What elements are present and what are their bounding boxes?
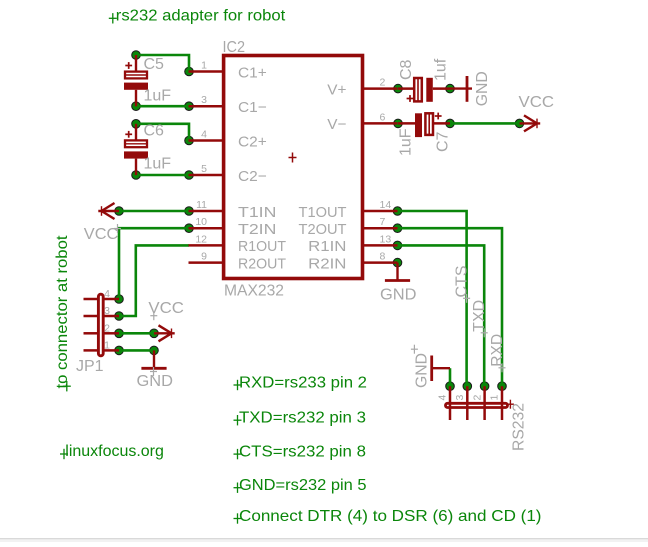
svg-text:CTS: CTS (454, 266, 471, 298)
label JP1 (76, 358, 104, 375)
svg-text:3: 3 (104, 305, 110, 317)
wire C5 top to pin1 (136, 55, 189, 72)
wire VCC to T1IN pin11 (119, 210, 189, 213)
supply VCC arrow at JP1 pin2 (154, 325, 175, 341)
ground symbol at JP1 pin1 (141, 350, 166, 368)
svg-text:1: 1 (201, 60, 207, 72)
net label CTS (454, 266, 471, 303)
svg-text:rs232 adapter for robot: rs232 adapter for robot (116, 8, 286, 25)
svg-text:TXD: TXD (471, 300, 488, 332)
svg-text:C6: C6 (144, 123, 165, 140)
svg-text:12: 12 (195, 233, 207, 245)
svg-text:VCC: VCC (84, 226, 119, 243)
text "GND=rs232 pin 5" (234, 477, 367, 494)
svg-text:RS232: RS232 (510, 403, 527, 451)
svg-text:JP1: JP1 (76, 358, 104, 375)
svg-text:1uF: 1uF (144, 156, 172, 173)
connector RS232 body (446, 400, 514, 409)
value label MAX232 (224, 283, 284, 300)
svg-text:R2IN: R2IN (308, 255, 346, 272)
svg-text:CTS=rs232 pin 8: CTS=rs232 pin 8 (239, 443, 366, 460)
wire pin6 to C7 (398, 122, 450, 125)
svg-text:C1−: C1− (238, 99, 267, 116)
svg-text:R1OUT: R1OUT (238, 238, 286, 255)
value 1uF (C5) (144, 87, 172, 104)
connector JP1 body (98, 294, 103, 356)
label VCC (JP1) (148, 300, 184, 320)
wire T2OUT pin7 to RS232 pin1 (RXD) (398, 228, 503, 386)
IC2 left pin numbers (195, 60, 207, 263)
svg-text:C5: C5 (144, 56, 165, 73)
label GND (RS232, rotated) (411, 345, 431, 388)
svg-text:4: 4 (104, 288, 110, 300)
svg-text:GND: GND (380, 287, 417, 304)
svg-text:T1IN: T1IN (238, 204, 276, 221)
svg-text:TXD=rs232 pin 3: TXD=rs232 pin 3 (239, 410, 366, 427)
value 1uF (C7, rotated) (397, 128, 414, 156)
svg-text:3: 3 (201, 94, 207, 106)
svg-text:V+: V+ (327, 81, 346, 98)
ground symbol at RS232 pin4 (432, 356, 450, 382)
svg-text:10: 10 (195, 216, 207, 228)
ground symbol at R2IN pin8 (385, 263, 410, 281)
IC2 left pin stubs (189, 72, 224, 263)
svg-text:1uf: 1uf (432, 58, 449, 81)
wire C6 bottom to pin5 (136, 174, 189, 177)
svg-text:linuxfocus.org: linuxfocus.org (65, 443, 164, 460)
label C6 (144, 123, 165, 140)
svg-text:1: 1 (104, 339, 110, 351)
IC IC2 (MAX232) body (224, 56, 363, 279)
svg-text:11: 11 (196, 199, 207, 211)
svg-text:2: 2 (104, 322, 110, 334)
net label TXD (471, 300, 488, 338)
supply VCC arrow at T1IN (98, 203, 119, 219)
svg-text:4: 4 (201, 129, 207, 141)
capacitor C6 (124, 124, 148, 175)
wire T1OUT pin14 to RS232 pin3 (CTS) (398, 211, 468, 386)
wire C7 to VCC supply (450, 122, 520, 125)
svg-text:MAX232: MAX232 (224, 283, 284, 300)
label RS232 (rotated) (510, 403, 527, 451)
label C8 (rotated) (398, 59, 415, 80)
label VCC (T1IN) (84, 224, 121, 243)
svg-text:V−: V− (327, 116, 346, 133)
svg-text:3: 3 (454, 395, 466, 401)
wire C6 top to pin4 (136, 124, 189, 141)
svg-text:to connector at robot: to connector at robot (54, 235, 71, 389)
svg-text:C8: C8 (398, 59, 415, 80)
svg-text:7: 7 (380, 216, 386, 228)
capacitor C7 (415, 113, 442, 138)
wire pin2 to C8 (398, 87, 450, 90)
svg-text:2: 2 (380, 77, 386, 89)
svg-text:1: 1 (489, 395, 501, 401)
connector JP1 pin numbers (104, 288, 110, 351)
wire C5 bottom to pin3 (136, 105, 189, 108)
wire R1IN pin13 to RS232 pin2 (TXD) (398, 245, 485, 386)
svg-text:1uF: 1uF (144, 87, 172, 104)
svg-text:2: 2 (471, 395, 483, 401)
svg-text:14: 14 (380, 199, 392, 211)
svg-text:T2IN: T2IN (238, 221, 276, 238)
wire JP1 pin1 to GND (119, 349, 154, 352)
svg-text:13: 13 (380, 233, 392, 245)
svg-text:RXD: RXD (489, 334, 506, 367)
svg-text:IC2: IC2 (223, 39, 246, 56)
label C5 (144, 56, 165, 73)
wire R1OUT pin12 to JP1 pin3 (119, 245, 189, 316)
label IC2 (223, 39, 246, 56)
svg-text:RXD=rs233 pin 2: RXD=rs233 pin 2 (239, 374, 367, 391)
IC2 right pin numbers (380, 77, 392, 263)
label GND (pin8) (380, 287, 417, 304)
wire JP1 pin2 to VCC (119, 332, 154, 335)
svg-text:T1OUT: T1OUT (299, 204, 347, 221)
text linuxfocus.org (60, 443, 164, 460)
svg-text:C7: C7 (435, 131, 452, 152)
capacitor C8 (407, 78, 433, 102)
svg-text:4: 4 (437, 395, 449, 401)
connector RS232 pin numbers (rotated) (437, 395, 501, 401)
text "RXD=rs233 pin 2" (234, 374, 368, 391)
svg-text:GND: GND (137, 373, 174, 390)
svg-text:9: 9 (201, 251, 207, 263)
svg-text:5: 5 (201, 163, 207, 175)
svg-text:GND: GND (414, 353, 431, 388)
net label RXD (489, 334, 506, 373)
title text "rs232 adapter for robot" (109, 8, 286, 25)
svg-text:C2−: C2− (238, 168, 267, 185)
text "to connector at robot" (rotated) (54, 235, 71, 391)
svg-text:C2+: C2+ (238, 133, 267, 150)
wire T2IN pin10 to JP1 pin4 (119, 228, 189, 299)
svg-text:GND=rs232 pin 5: GND=rs232 pin 5 (239, 477, 367, 494)
svg-text:GND: GND (474, 71, 491, 106)
svg-text:R2OUT: R2OUT (238, 255, 286, 272)
label GND (JP1) (137, 367, 174, 390)
svg-text:Connect DTR (4) to DSR (6) and: Connect DTR (4) to DSR (6) and CD (1) (239, 508, 542, 525)
connector JP1 pin stubs (84, 299, 120, 350)
svg-text:8: 8 (380, 251, 386, 263)
label GND (C8, rotated) (474, 71, 491, 106)
text "Connect DTR (4) to DSR (6) and CD (1)" (234, 508, 542, 525)
capacitor C5 (124, 55, 148, 106)
value 1uF (C6) (144, 156, 172, 173)
svg-text:6: 6 (380, 111, 386, 123)
text "TXD=rs232 pin 3" (234, 410, 367, 427)
label C7 (rotated) (435, 131, 452, 152)
bottom scrollbar edge line (0, 538, 648, 542)
text "CTS=rs232 pin 8" (234, 443, 367, 460)
IC2 left pin names (238, 64, 286, 272)
svg-text:C1+: C1+ (238, 64, 267, 81)
label VCC (C7) (519, 94, 555, 111)
svg-text:T2OUT: T2OUT (299, 221, 347, 238)
svg-text:VCC: VCC (519, 94, 555, 111)
wire RS232 GND drop (449, 368, 452, 386)
supply VCC arrow right of C7 (520, 115, 541, 131)
IC2 right pin stubs (363, 89, 398, 263)
value 1uf (C8, rotated) (432, 58, 449, 81)
svg-text:R1IN: R1IN (308, 238, 346, 255)
connector RS232 pin stubs (450, 386, 502, 420)
node junction dots (115, 51, 524, 391)
ground symbol right of C8 (450, 76, 472, 102)
svg-text:1uF: 1uF (397, 128, 414, 156)
IC2 right pin names (299, 81, 347, 272)
